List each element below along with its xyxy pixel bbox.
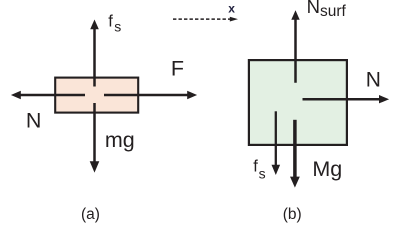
dashed x-axis arrow — [173, 17, 238, 22]
svg-text:x: x — [228, 2, 235, 16]
arrow Mg down — [290, 120, 300, 188]
svg-text:N: N — [366, 69, 381, 92]
svg-text:(a): (a) — [81, 206, 100, 223]
svg-text:F: F — [171, 56, 184, 80]
svg-text:Mg: Mg — [312, 157, 342, 181]
svg-text:mg: mg — [105, 128, 135, 152]
arrow f_s down (b) — [272, 111, 281, 175]
arrow N left — [11, 91, 85, 99]
arrow f_s (up) — [90, 20, 99, 87]
arrow N right (b) — [303, 95, 390, 103]
block (a) — [55, 78, 138, 113]
block (b) — [249, 60, 347, 145]
svg-text:N: N — [26, 109, 42, 133]
svg-text:Nsurf: Nsurf — [307, 0, 347, 20]
svg-text:(b): (b) — [283, 206, 302, 223]
arrow N_surf (up) — [291, 10, 299, 82]
arrow mg (down) — [90, 103, 100, 173]
arrow F right — [104, 91, 197, 99]
